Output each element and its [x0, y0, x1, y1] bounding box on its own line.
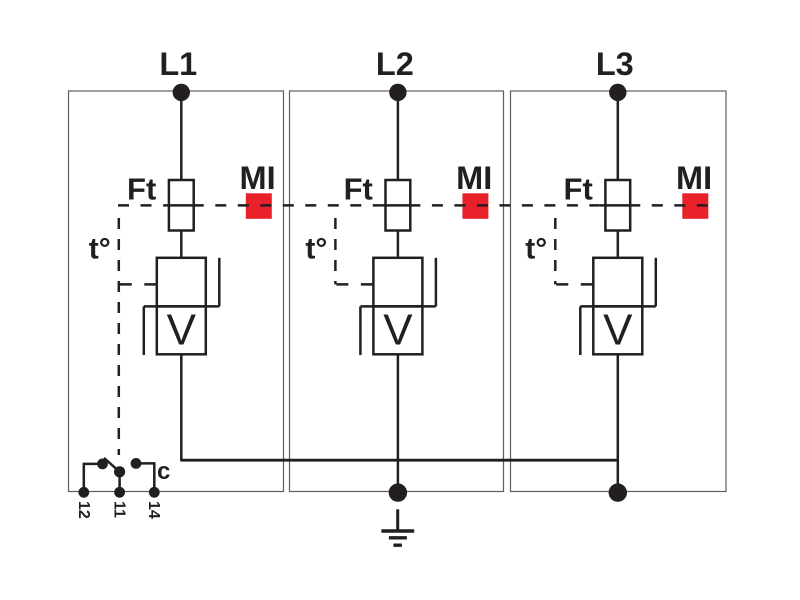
svg-text:MI: MI — [240, 160, 276, 196]
enclosure box 3 — [511, 91, 727, 492]
svg-text:MI: MI — [676, 160, 712, 196]
svg-text:V: V — [603, 306, 633, 355]
contact dot 14 — [131, 458, 142, 469]
ground stem — [396, 509, 399, 530]
dashed MI signal line segment after Ft2 — [420, 204, 599, 207]
enclosure box 2 — [290, 91, 504, 492]
disconnect switch box (upper) of V3 — [593, 258, 642, 307]
terminal L1 — [173, 84, 190, 101]
right bracket of V1 assembly — [218, 258, 221, 307]
thermal disconnector Ft2 — [386, 180, 411, 231]
varistor V2 box — [373, 306, 422, 354]
wire L3 to Ft3 — [617, 92, 620, 181]
indicator MI3 (red) — [682, 193, 708, 219]
svg-text:Ft: Ft — [127, 172, 156, 207]
ground bar 3 — [393, 544, 402, 547]
earth terminal dot phase 3 — [609, 483, 627, 501]
divider line of V3 assembly — [580, 305, 656, 308]
svg-text:MI: MI — [456, 160, 492, 196]
right bracket of V2 assembly — [435, 258, 438, 307]
wire Ft3 to varistor block — [617, 231, 620, 259]
terminal dot 11 — [114, 487, 125, 498]
left bracket of V2 assembly — [359, 306, 362, 355]
varistor V1 box — [157, 306, 206, 354]
wire Ft1 to varistor block — [180, 231, 183, 259]
svg-text:Ft: Ft — [564, 172, 593, 207]
indicator MI2 (red) — [462, 193, 488, 219]
earth bus wire — [181, 459, 618, 462]
dashed thermal sense line t3 (horizontal to varistor) — [556, 283, 593, 286]
dashed MI signal line segment after Ft3 — [640, 204, 708, 207]
divider line of V2 assembly — [360, 305, 436, 308]
thermal disconnector Ft3 — [605, 180, 630, 231]
terminal L2 — [389, 84, 406, 101]
svg-text:t°: t° — [89, 233, 111, 266]
svg-text:11: 11 — [110, 501, 127, 518]
dashed thermal sense line t2 (vertical) — [334, 208, 337, 284]
solid strike through Ft1 (MI line) — [163, 204, 204, 207]
svg-text:L1: L1 — [159, 46, 197, 82]
changeover switch lever — [104, 458, 120, 472]
dashed thermal sense line t1 (horizontal to varistor) — [120, 283, 157, 286]
disconnect switch box (upper) of V2 — [373, 258, 422, 307]
svg-text:V: V — [383, 306, 413, 355]
left bracket of V3 assembly — [579, 306, 582, 355]
wire Ft2 to varistor block — [397, 231, 400, 259]
wire V2 to earth bus — [397, 354, 400, 493]
solid strike through Ft2 (MI line) — [380, 204, 421, 207]
indicator MI1 (red) — [246, 193, 272, 219]
wire contact 12 branch — [84, 464, 103, 492]
dashed MI signal line segment (left of Ft1) — [118, 204, 163, 207]
ground bar 1 — [381, 529, 414, 532]
svg-text:t°: t° — [525, 233, 547, 266]
terminal L3 — [609, 84, 626, 101]
enclosure box 1 — [69, 91, 284, 492]
svg-text:c: c — [157, 458, 170, 485]
wire contact 11 branch — [118, 472, 121, 493]
left bracket of V1 assembly — [143, 306, 146, 355]
varistor V3 box — [593, 306, 642, 354]
wire contact 14 branch — [136, 463, 154, 492]
earth terminal dot phase 2 — [389, 483, 407, 501]
thermal disconnector Ft1 — [169, 180, 194, 231]
solid strike through Ft3 (MI line) — [600, 204, 641, 207]
terminal dot 12 — [78, 487, 89, 498]
right bracket of V3 assembly — [655, 258, 658, 307]
dashed thermal sense line t3 (vertical) — [554, 208, 557, 284]
svg-text:14: 14 — [145, 501, 162, 519]
disconnect switch box (upper) of V1 — [157, 258, 206, 307]
svg-text:V: V — [167, 306, 197, 355]
contact dot 12 — [97, 459, 108, 470]
dashed thermal sense line t2 (horizontal to varistor) — [336, 283, 373, 286]
wire L1 to Ft1 — [180, 92, 183, 181]
switch pivot dot (11) — [114, 466, 125, 477]
ground bar 2 — [389, 536, 407, 539]
dashed thermal sense line t1 (vertical) — [118, 208, 121, 455]
svg-text:t°: t° — [305, 233, 327, 266]
svg-text:L2: L2 — [376, 46, 414, 82]
svg-text:L3: L3 — [596, 46, 634, 82]
divider line of V1 assembly — [144, 305, 220, 308]
wire V3 to earth bus — [617, 354, 620, 493]
terminal dot 14 — [149, 487, 160, 498]
svg-text:Ft: Ft — [344, 172, 373, 207]
wire L2 to Ft2 — [397, 92, 400, 181]
wire V1 to earth bus — [180, 354, 183, 461]
svg-text:12: 12 — [75, 501, 92, 519]
dashed MI signal line segment after Ft1 — [204, 204, 380, 207]
